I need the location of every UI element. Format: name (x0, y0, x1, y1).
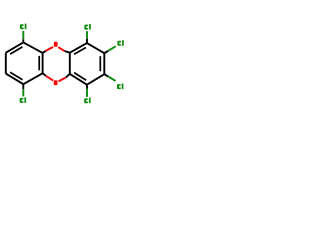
double bond C9a-C6a (shared edge, fused to central ring) (42, 53, 44, 73)
bond C3-C4 (87, 74, 104, 85)
double bond C2=C3 (right ring right edge) (103, 53, 105, 74)
label Cl on C2 (right upper) (117, 40, 123, 46)
bond C6-C6a (single) (23, 73, 42, 84)
label Cl on C3 (right lower) (117, 84, 123, 90)
label O10 oxygen top (54, 42, 58, 47)
bond C10a-C4a (right ring left edge, fused to central ring) (69, 53, 71, 74)
double bond C8=C9 (top-left edge) (6, 42, 24, 52)
bond C6-Cl (22, 84, 24, 89)
bond C4-Cl (86, 85, 88, 89)
label Cl on C4 (bottom-right ring) (84, 98, 90, 104)
bond C1-Cl (86, 39, 88, 44)
bond C3-Cl (104, 74, 108, 76)
bond C2-Cl (104, 51, 108, 53)
label Cl on C9 (top-left) (20, 24, 26, 30)
bond C4a-O5 (66, 74, 70, 78)
label Cl on C6 (bottom-left) (20, 97, 26, 103)
bond C1-C2 (87, 43, 104, 53)
bond C9-Cl (22, 39, 24, 42)
double bond C10a=C1 (right ring top-left edge) (70, 43, 87, 53)
bond C6a-O5 (43, 73, 46, 76)
double bond C6=C7 (bottom-left edge) (6, 74, 24, 85)
bond C10a-O10 (65, 51, 70, 53)
bond C9a-O10 (43, 51, 46, 53)
bond C9-C9a (single) (23, 42, 42, 53)
chemical structure: 1,2,3,4,6,9-hexachlorodibenzo-p-dioxin (0, 0, 130, 130)
label O5 oxygen bottom (54, 80, 58, 85)
bond C7-C8 (left ring left edge) (5, 53, 7, 74)
label Cl on C1 (top-right ring) (84, 24, 90, 30)
double bond C4a=C4 (right ring bottom-left edge) (70, 74, 87, 85)
